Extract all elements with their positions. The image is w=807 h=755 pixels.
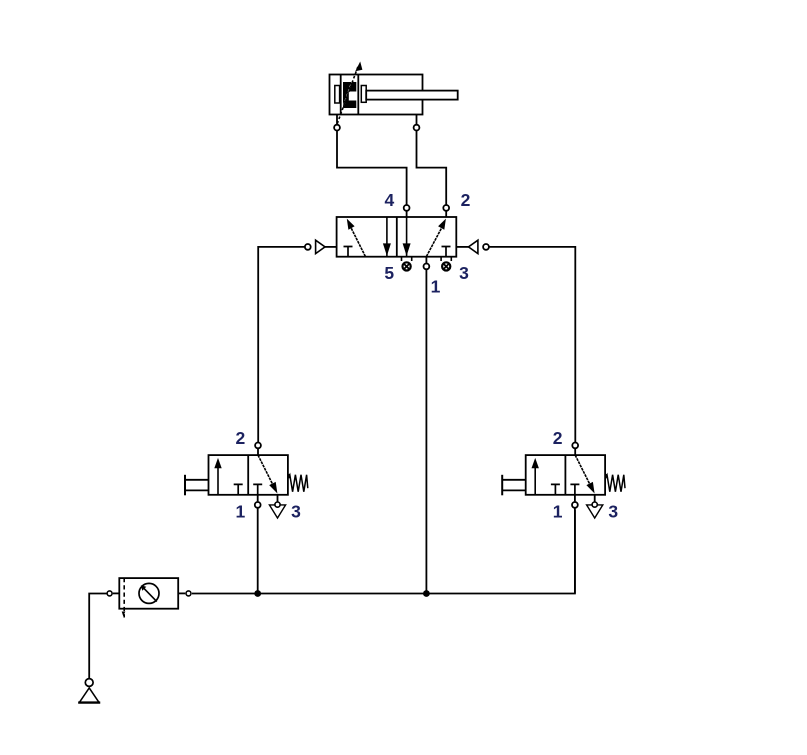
svg-text:2: 2 [236, 428, 246, 448]
valve 1S1 port 1 stub [257, 495, 259, 502]
cylinder right port node [414, 125, 420, 131]
air service unit right node [186, 591, 191, 596]
wire cylinder-left-port to elbow [337, 131, 407, 205]
wire left 3/2 port 1 down to bus [257, 508, 259, 593]
valve 1S1 port 3 exhaust [269, 495, 285, 518]
valve 1V right box down flow arrow [406, 217, 408, 257]
svg-text:1: 1 [553, 502, 563, 522]
valve 1S2 right box diagonal exhaust arrow [575, 455, 594, 493]
valve 1S2 left box up flow arrow [532, 458, 539, 495]
valve 1S2 port 2 stub [574, 449, 576, 455]
svg-text:3: 3 [608, 502, 618, 522]
cylinder piston [357, 75, 359, 115]
valve 1V left box blocked port T [344, 247, 353, 257]
wire right pilot line [489, 247, 575, 442]
valve 1S2 port 1 stub [574, 495, 576, 502]
wire right 3/2 port 1 down to bus [574, 508, 576, 593]
valve 1V left pilot node [305, 244, 311, 250]
cylinder left port stub [336, 115, 338, 125]
wire supply bus [192, 510, 575, 594]
valve 1V port 3 blanked connection [441, 257, 451, 271]
valve 1V port 1 stub [425, 257, 427, 263]
valve 1V right box blocked port T [442, 247, 451, 257]
valve 1V left pilot stub [325, 246, 337, 248]
svg-text:4: 4 [385, 190, 395, 210]
valve 1V right pilot node [483, 244, 489, 250]
valve 1V divider [396, 217, 398, 257]
cylinder left port node [334, 125, 340, 131]
valve 1S2 port 1 node [572, 502, 578, 508]
air service unit filter dashed line [123, 578, 125, 617]
valve 1S1 left box blocked port T [234, 484, 243, 494]
air service unit drain arrow [122, 612, 126, 617]
wire valve port 1 down to bus [425, 270, 427, 594]
valve 1S2 3/2 body (right) [526, 455, 605, 495]
valve 1S2 port 2 node [572, 443, 578, 449]
junction dot at left 3/2 supply [254, 590, 261, 597]
valve 1V port 2 stub [445, 211, 447, 217]
svg-text:2: 2 [461, 190, 471, 210]
air service unit left node [107, 591, 112, 596]
cylinder magnet (black C) [337, 67, 357, 124]
valve 1S2 right box blocked port T [570, 484, 579, 494]
valve 1V right pilot stub [456, 246, 468, 248]
compressed air source triangle [79, 688, 99, 703]
valve 1V port 4 node [404, 205, 410, 211]
air service unit 0Z body [119, 578, 178, 609]
svg-text:3: 3 [459, 263, 469, 283]
cylinder cushion adjust arrow (dashed) [337, 67, 358, 124]
air service unit left stub [113, 592, 120, 594]
svg-text:2: 2 [553, 428, 563, 448]
cylinder 1A body [330, 75, 423, 115]
valve 1V left box down flow arrow [386, 217, 388, 257]
valve 1S2 pushbutton actuator [502, 475, 526, 496]
valve 1V left pilot triangle [316, 240, 325, 253]
valve 1V right box diagonal flow arrow [426, 225, 443, 257]
cylinder left cap divider [340, 75, 342, 115]
cylinder left cushion bush [335, 86, 340, 104]
valve 1S1 left box up flow arrow [214, 458, 221, 495]
cylinder right cushion bush [361, 86, 366, 103]
valve 1V port 5 blanked connection [402, 257, 412, 271]
svg-text:3: 3 [291, 502, 301, 522]
wire source to service unit [89, 594, 106, 679]
valve 1S1 right box blocked port T [253, 484, 262, 494]
compressed air source node [85, 679, 93, 687]
air service unit right stub [178, 592, 185, 594]
junction dot at 5/2 supply [423, 590, 430, 597]
valve 1V left box diagonal flow arrow [350, 225, 366, 257]
valve 1S2 return spring [605, 474, 607, 478]
svg-text:5: 5 [384, 263, 394, 283]
wire cylinder-right-port to valve port 2 [417, 131, 447, 205]
wire left pilot line [258, 247, 304, 442]
valve 1V port 4 stub [406, 211, 408, 217]
valve 1V 5/2 body [337, 217, 457, 257]
valve 1S1 pushbutton actuator [185, 475, 209, 496]
valve 1V right pilot triangle [469, 240, 478, 253]
compressed air source base line [78, 701, 100, 703]
valve 1S1 port 2 node [255, 443, 261, 449]
valve 1V port 1 node [424, 264, 430, 270]
air service unit regulator circle [139, 583, 159, 603]
valve 1S2 port 3 exhaust [587, 495, 603, 518]
air service unit regulator arrow [141, 585, 157, 601]
cylinder right port stub [416, 115, 418, 125]
valve 1S2 left box blocked port T [551, 484, 560, 494]
valve 1S1 3/2 body (left) [209, 455, 288, 495]
svg-text:1: 1 [236, 502, 246, 522]
svg-text:1: 1 [431, 276, 441, 296]
valve 1S1 port 1 node [255, 502, 261, 508]
valve 1S1 port 2 stub [257, 449, 259, 455]
valve 1S1 right box diagonal exhaust arrow [258, 455, 277, 493]
valve 1S1 return spring [288, 474, 290, 478]
valve 1V port 2 node [443, 205, 449, 211]
cylinder piston rod [366, 91, 458, 100]
